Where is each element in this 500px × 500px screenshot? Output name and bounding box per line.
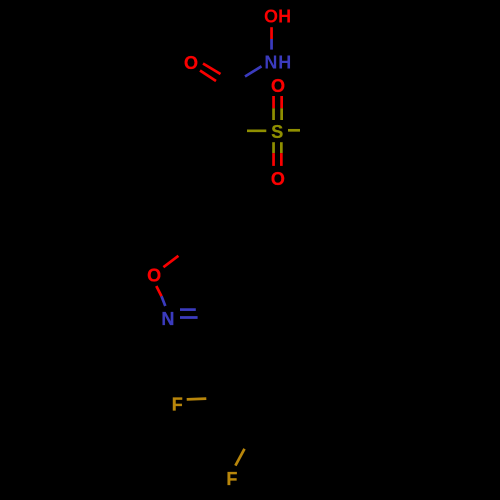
wire S=O bottom double bond left line (olive half then red half) [272, 142, 275, 153]
svg-text:N: N [161, 309, 174, 329]
svg-text:O: O [271, 169, 285, 189]
svg-text:H: H [278, 7, 291, 27]
label NH (hydroxamic nitrogen) [264, 53, 291, 73]
wire O-N bond (red half, O side) [270, 27, 273, 39]
svg-text:H: H [278, 53, 291, 73]
wire C-S bond left (olive half from S, carbon half invisible) [247, 129, 266, 132]
wire O1-N2 ring bond (red half, O side) [156, 286, 161, 296]
wire S=O top double bond right line (red half then olive half) [280, 96, 283, 108]
svg-text:N: N [264, 53, 277, 73]
wire O1-C5 ring bond (red half from O, carbon half invisible) [163, 256, 178, 267]
svg-text:F: F [172, 395, 183, 415]
wire S=O bottom double bond right line (olive half then red half) [280, 142, 283, 153]
svg-text:O: O [271, 76, 285, 96]
svg-text:O: O [264, 7, 278, 27]
wire O1-N2 ring bond (blue half, N side) [162, 296, 166, 306]
wire C=O double bond lower line (red half) [200, 71, 216, 82]
wire F-C3' bond (goldenrod half from F, carbon half invisible) [235, 449, 244, 466]
wire F-C2' bond (goldenrod half from F, carbon half invisible) [187, 397, 207, 400]
wire O-N bond (blue half, N side) [270, 39, 273, 50]
svg-text:F: F [226, 469, 237, 489]
wire C=O double bond upper line (red half) [203, 64, 221, 75]
wire N-C(=O) bond (blue half from N, carbon half invisible) [245, 66, 262, 76]
wire N2=C3 double bond upper line (blue half, carbon half invisible) [180, 308, 196, 311]
wire S=O top double bond left line (red half then olive half) [272, 96, 275, 108]
label OH (hydroxylamine oxygen) [264, 7, 291, 27]
svg-text:S: S [271, 122, 283, 142]
wire N2=C3 double bond lower line (blue half, carbon half invisible) [180, 316, 198, 319]
svg-text:O: O [184, 53, 198, 73]
svg-text:O: O [147, 266, 161, 286]
wire S-CH3 bond right (olive half from S, carbon half invisible) [288, 129, 300, 132]
